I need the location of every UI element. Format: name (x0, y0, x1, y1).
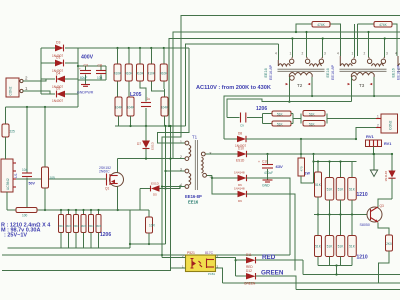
wire bottom bus A (8, 210, 166, 248)
resistor R2 snubber (125, 48, 133, 97)
svg-text:51K: 51K (338, 245, 345, 249)
wire bridge right rail (65, 48, 78, 94)
label 1206 (100, 232, 111, 238)
svg-text:1206: 1206 (256, 106, 267, 112)
resistor R27 load (325, 160, 334, 214)
resistor R11 gate (42, 107, 56, 211)
diode D1 (52, 56, 64, 74)
svg-text:50V: 50V (29, 182, 36, 186)
svg-text:EE16: EE16 (326, 68, 330, 77)
wire T1 pin5 out (207, 175, 238, 194)
svg-text:EE16-8P: EE16-8P (269, 64, 273, 80)
svg-text:225: 225 (10, 130, 16, 134)
resistor R35 (298, 138, 314, 183)
wire bridge left rail (41, 48, 55, 94)
resistor R26 load (315, 160, 322, 214)
capacitor C3 (79, 64, 91, 80)
wire lower rail join (318, 264, 352, 274)
svg-text:410K: 410K (114, 72, 122, 76)
resistor R3 snubber (136, 48, 146, 102)
label GREEN (261, 270, 284, 277)
svg-text:D5: D5 (153, 193, 157, 197)
svg-text:T2: T2 (297, 83, 303, 88)
svg-text:GNDPWR: GNDPWR (77, 91, 94, 95)
svg-text:1u: 1u (147, 97, 151, 101)
wire bridge bottom rail (6, 94, 79, 108)
IC U1 (1, 159, 18, 192)
label RED (262, 254, 276, 261)
svg-text:2R4: 2R4 (58, 224, 64, 228)
wire IC bottom (6, 192, 8, 210)
svg-text:AC110V : from 200K to 430K: AC110V : from 200K to 430K (196, 85, 271, 91)
svg-text:51K: 51K (327, 188, 334, 192)
wire U2 pin2 (355, 128, 376, 141)
svg-text:1: 1 (290, 52, 292, 56)
svg-text:D3: D3 (56, 41, 60, 45)
capacitor C8 (96, 64, 106, 80)
resistor R23 (272, 114, 301, 127)
svg-text:EE16: EE16 (188, 200, 199, 205)
resistor R19 (146, 210, 156, 245)
transformer T2 (275, 52, 326, 88)
wire load rail top (312, 153, 356, 183)
resistor R1 snubber (114, 48, 122, 97)
wire top bus 4 (186, 44, 279, 126)
wire heater line 2 (227, 99, 351, 118)
svg-text:2: 2 (377, 124, 379, 128)
svg-text:CON2: CON2 (389, 120, 393, 130)
diode D3 (52, 41, 64, 59)
svg-text:: 25V~1V: : 25V~1V (4, 233, 27, 239)
wire top bus 3 (168, 39, 400, 128)
SECTION: middle (140, 85, 398, 271)
svg-text:105: 105 (50, 176, 56, 180)
svg-text:410K: 410K (125, 72, 133, 76)
wire cap rails (78, 66, 106, 80)
svg-text:817C: 817C (205, 251, 214, 255)
svg-text:51K: 51K (277, 113, 284, 117)
diode D5 (140, 181, 185, 210)
wire opto in bottom (169, 125, 185, 268)
svg-text:2R4: 2R4 (88, 224, 94, 228)
capacitor C6 vcc (22, 107, 35, 211)
svg-text:470: 470 (299, 166, 303, 171)
resistor bank R32 (325, 215, 334, 266)
capacitor C9 (227, 113, 263, 128)
svg-text:C10: C10 (262, 160, 268, 164)
ground GND mid (262, 180, 273, 188)
diode D6 (234, 171, 247, 187)
svg-text:D2: D2 (56, 87, 60, 91)
svg-text:104K: 104K (127, 106, 135, 110)
svg-text:1N4148: 1N4148 (234, 187, 245, 191)
label 1210 upper (357, 192, 368, 198)
ground GND arrow (370, 153, 377, 177)
label EE16 T2 (264, 64, 273, 80)
wire source rail (7, 209, 149, 211)
svg-text:104K: 104K (161, 106, 169, 110)
wire pin2 (23, 79, 46, 81)
wire opto in top (162, 257, 186, 259)
svg-text:1: 1 (352, 52, 354, 56)
resistor R7 lower (127, 97, 135, 126)
svg-text:L205: L205 (130, 92, 142, 98)
svg-text:CON2: CON2 (9, 86, 13, 95)
svg-text:400V: 400V (81, 55, 94, 61)
resistor R8 lower (161, 97, 169, 126)
svg-text:2R4: 2R4 (96, 224, 102, 228)
resistor R29 load (348, 162, 357, 215)
wire opto out bottom (216, 268, 400, 283)
capacitor C5 with L205 label (130, 92, 151, 126)
svg-text:Q3: Q3 (380, 204, 384, 208)
resistor bank R34 (348, 215, 357, 266)
svg-text:ES1D: ES1D (236, 159, 245, 163)
resistor R9 startup (2, 107, 15, 159)
resistor bank R18 (96, 209, 102, 248)
svg-text:D8: D8 (238, 132, 242, 136)
svg-text:103: 103 (97, 76, 103, 80)
svg-text:2K0: 2K0 (386, 242, 392, 246)
svg-text:RV1: RV1 (384, 142, 391, 146)
wire lower rail (115, 125, 186, 127)
svg-text:3: 3 (324, 52, 326, 56)
wire top bus 2 (173, 32, 400, 159)
wire top bus 1 (161, 16, 400, 258)
resistor bank R33 (336, 215, 345, 266)
label EE16 T3 (326, 64, 335, 80)
label 400V (81, 55, 94, 61)
svg-text:474K: 474K (317, 23, 325, 27)
wire T1 pin8 out (206, 153, 238, 155)
svg-text:D10: D10 (238, 147, 244, 151)
wire T3 pin risers (354, 24, 385, 57)
resistor R5 snubber (160, 48, 168, 97)
svg-text:3: 3 (386, 52, 388, 56)
svg-text:+: + (79, 67, 81, 71)
svg-text:2R4: 2R4 (66, 224, 72, 228)
connector X1 (6, 76, 28, 98)
transformer T3 (337, 52, 388, 88)
svg-text:474K: 474K (379, 23, 387, 27)
svg-text:1210: 1210 (357, 192, 368, 198)
svg-text:100: 100 (22, 214, 28, 218)
capacitor C10 (258, 153, 283, 180)
svg-text:D4: D4 (56, 72, 60, 76)
wire collector (378, 199, 392, 208)
svg-text:1206: 1206 (100, 232, 111, 238)
svg-text:T3: T3 (359, 83, 365, 88)
wire top bus 5 pin1 feed (158, 48, 190, 143)
wire opto out top (216, 258, 237, 277)
diode D13 led (384, 153, 396, 199)
node HV junctions (77, 47, 165, 67)
svg-text:D11: D11 (246, 253, 252, 257)
svg-text:EE16-8P: EE16-8P (396, 64, 400, 80)
svg-text:2: 2 (180, 155, 182, 159)
svg-text:1N4148: 1N4148 (234, 171, 245, 175)
svg-text:470uF: 470uF (264, 171, 273, 175)
svg-text:EE16-8P: EE16-8P (331, 64, 335, 80)
transistor Q1 mosfet (99, 166, 124, 191)
svg-text:PC81: PC81 (208, 272, 215, 276)
diode D10 (236, 147, 392, 163)
svg-text:ES1D: ES1D (151, 181, 160, 185)
svg-text:2R4: 2R4 (81, 224, 87, 228)
resistor bank R14 (66, 209, 72, 248)
svg-text:EE16: EE16 (392, 68, 396, 77)
SECTION: top-right transformers (158, 16, 400, 258)
resistor R25 (303, 119, 376, 127)
wire pin1 (23, 91, 50, 94)
ground GNDPWR (77, 80, 94, 95)
label EE16 T1 (185, 194, 202, 205)
label 1206 mid (256, 106, 267, 112)
svg-text:RV1: RV1 (366, 134, 374, 139)
label 1210 lower (357, 255, 368, 261)
wire loop riser (164, 125, 166, 244)
wire bottom bus B (2, 254, 290, 256)
svg-text:+: + (258, 160, 260, 164)
resistor R12 sense (16, 208, 37, 218)
wire bottom bus E (296, 289, 400, 291)
wire T2 secondary drops (288, 77, 313, 103)
label EE16 T4 (392, 64, 400, 80)
svg-text:51K: 51K (327, 245, 334, 249)
svg-text:EE16-8P: EE16-8P (185, 194, 202, 199)
resistor R30 (379, 235, 393, 283)
resistor bank R17 (88, 209, 94, 248)
svg-text:63V: 63V (276, 164, 283, 169)
svg-text:D9: D9 (238, 199, 242, 203)
svg-text:51K: 51K (315, 183, 322, 187)
wire T1 pin3 (164, 170, 184, 172)
diode D8 (224, 132, 356, 149)
svg-text:104K: 104K (115, 106, 123, 110)
svg-text:410K: 410K (148, 72, 156, 76)
resistor bank R31 (315, 215, 322, 266)
SECTION: bottom (2, 125, 400, 290)
svg-text:U1: U1 (14, 173, 18, 178)
wire rail mid (314, 213, 368, 215)
diode D4 (52, 72, 65, 90)
svg-text:D7: D7 (137, 142, 141, 146)
svg-text:1210: 1210 (357, 255, 368, 261)
wire bottom bus C (2, 268, 171, 271)
svg-text:4: 4 (337, 52, 339, 56)
svg-text:82uF: 82uF (80, 76, 87, 80)
diode D11 (236, 253, 303, 269)
svg-text:2N60C: 2N60C (99, 169, 110, 173)
varistor RV1 (366, 134, 392, 155)
resistor R4 snubber (148, 48, 165, 91)
resistor bank R15 (73, 209, 79, 248)
svg-text:UC3842: UC3842 (6, 178, 10, 190)
diode D7 snubber (137, 126, 155, 159)
svg-text:4: 4 (395, 52, 397, 56)
resistor R24 (301, 111, 327, 124)
wire emitter (378, 223, 389, 236)
svg-text:2R4: 2R4 (73, 224, 79, 228)
resistor R21 (358, 22, 398, 57)
svg-text:P521: P521 (187, 251, 195, 255)
svg-text:GND: GND (262, 184, 270, 188)
svg-text:C8: C8 (98, 64, 102, 68)
wire D9 out (247, 194, 296, 271)
transformer T1 (180, 135, 212, 191)
svg-text:1: 1 (377, 115, 379, 119)
wire HV bus (78, 47, 189, 49)
wire heater line 1 (224, 96, 400, 139)
resistor bank R13 (58, 209, 64, 248)
resistor R20 (295, 22, 340, 57)
svg-text:GREEN: GREEN (261, 270, 284, 277)
svg-text:1N4148: 1N4148 (384, 171, 388, 182)
svg-text:1W: 1W (305, 172, 311, 176)
svg-text:RED: RED (262, 254, 276, 261)
wire T2 pin risers (278, 31, 324, 60)
svg-text:2: 2 (364, 52, 366, 56)
svg-text:51K: 51K (309, 112, 316, 116)
svg-text:4: 4 (275, 52, 277, 56)
svg-text:Q1: Q1 (105, 187, 109, 191)
svg-text:51K: 51K (277, 123, 284, 127)
wire drain row (118, 158, 185, 173)
wire T1 pin4 (161, 185, 185, 187)
connector U2 (376, 114, 398, 133)
svg-text:51K: 51K (338, 188, 345, 192)
svg-text:S8050: S8050 (360, 223, 370, 227)
svg-text:C3: C3 (84, 64, 88, 68)
svg-text:D12: D12 (246, 269, 252, 273)
resistor R28 load (336, 160, 345, 214)
svg-text:1: 1 (180, 140, 182, 144)
diode D12 (236, 269, 296, 290)
svg-text:1N4007: 1N4007 (52, 99, 63, 103)
diode D2 (52, 87, 65, 104)
svg-text:T1: T1 (192, 135, 198, 140)
transformer T4 clipped (395, 52, 400, 72)
optocoupler U3 (182, 251, 219, 276)
svg-text:410K: 410K (160, 72, 168, 76)
wire source (117, 187, 119, 212)
svg-text:ES1D: ES1D (151, 141, 155, 150)
diode D9 (234, 187, 247, 203)
svg-text:10R: 10R (149, 224, 156, 228)
svg-text:2: 2 (302, 52, 304, 56)
svg-text:51K: 51K (315, 245, 322, 249)
resistor R22 (263, 111, 294, 124)
svg-text:104: 104 (22, 168, 28, 172)
note text (1, 222, 51, 238)
resistor R6 lower (115, 97, 123, 126)
svg-text:GREEN: GREEN (244, 282, 256, 286)
note AC110V (196, 85, 271, 91)
svg-text:C9: C9 (240, 124, 244, 128)
svg-text:51K: 51K (349, 245, 356, 249)
wire bottom bus D (303, 260, 400, 275)
wire D6 out (247, 178, 291, 255)
resistor bank R16 (81, 209, 87, 248)
svg-text:51K: 51K (309, 122, 316, 126)
transistor Q2 (360, 204, 384, 227)
wire gate (16, 178, 107, 180)
svg-text:EE16: EE16 (264, 68, 268, 77)
SECTION: input / bridge (1, 41, 189, 249)
wire T3 secondary drops (351, 77, 375, 102)
svg-text:D1: D1 (56, 56, 60, 60)
svg-text:410K: 410K (136, 72, 144, 76)
svg-text:51K: 51K (349, 188, 356, 192)
